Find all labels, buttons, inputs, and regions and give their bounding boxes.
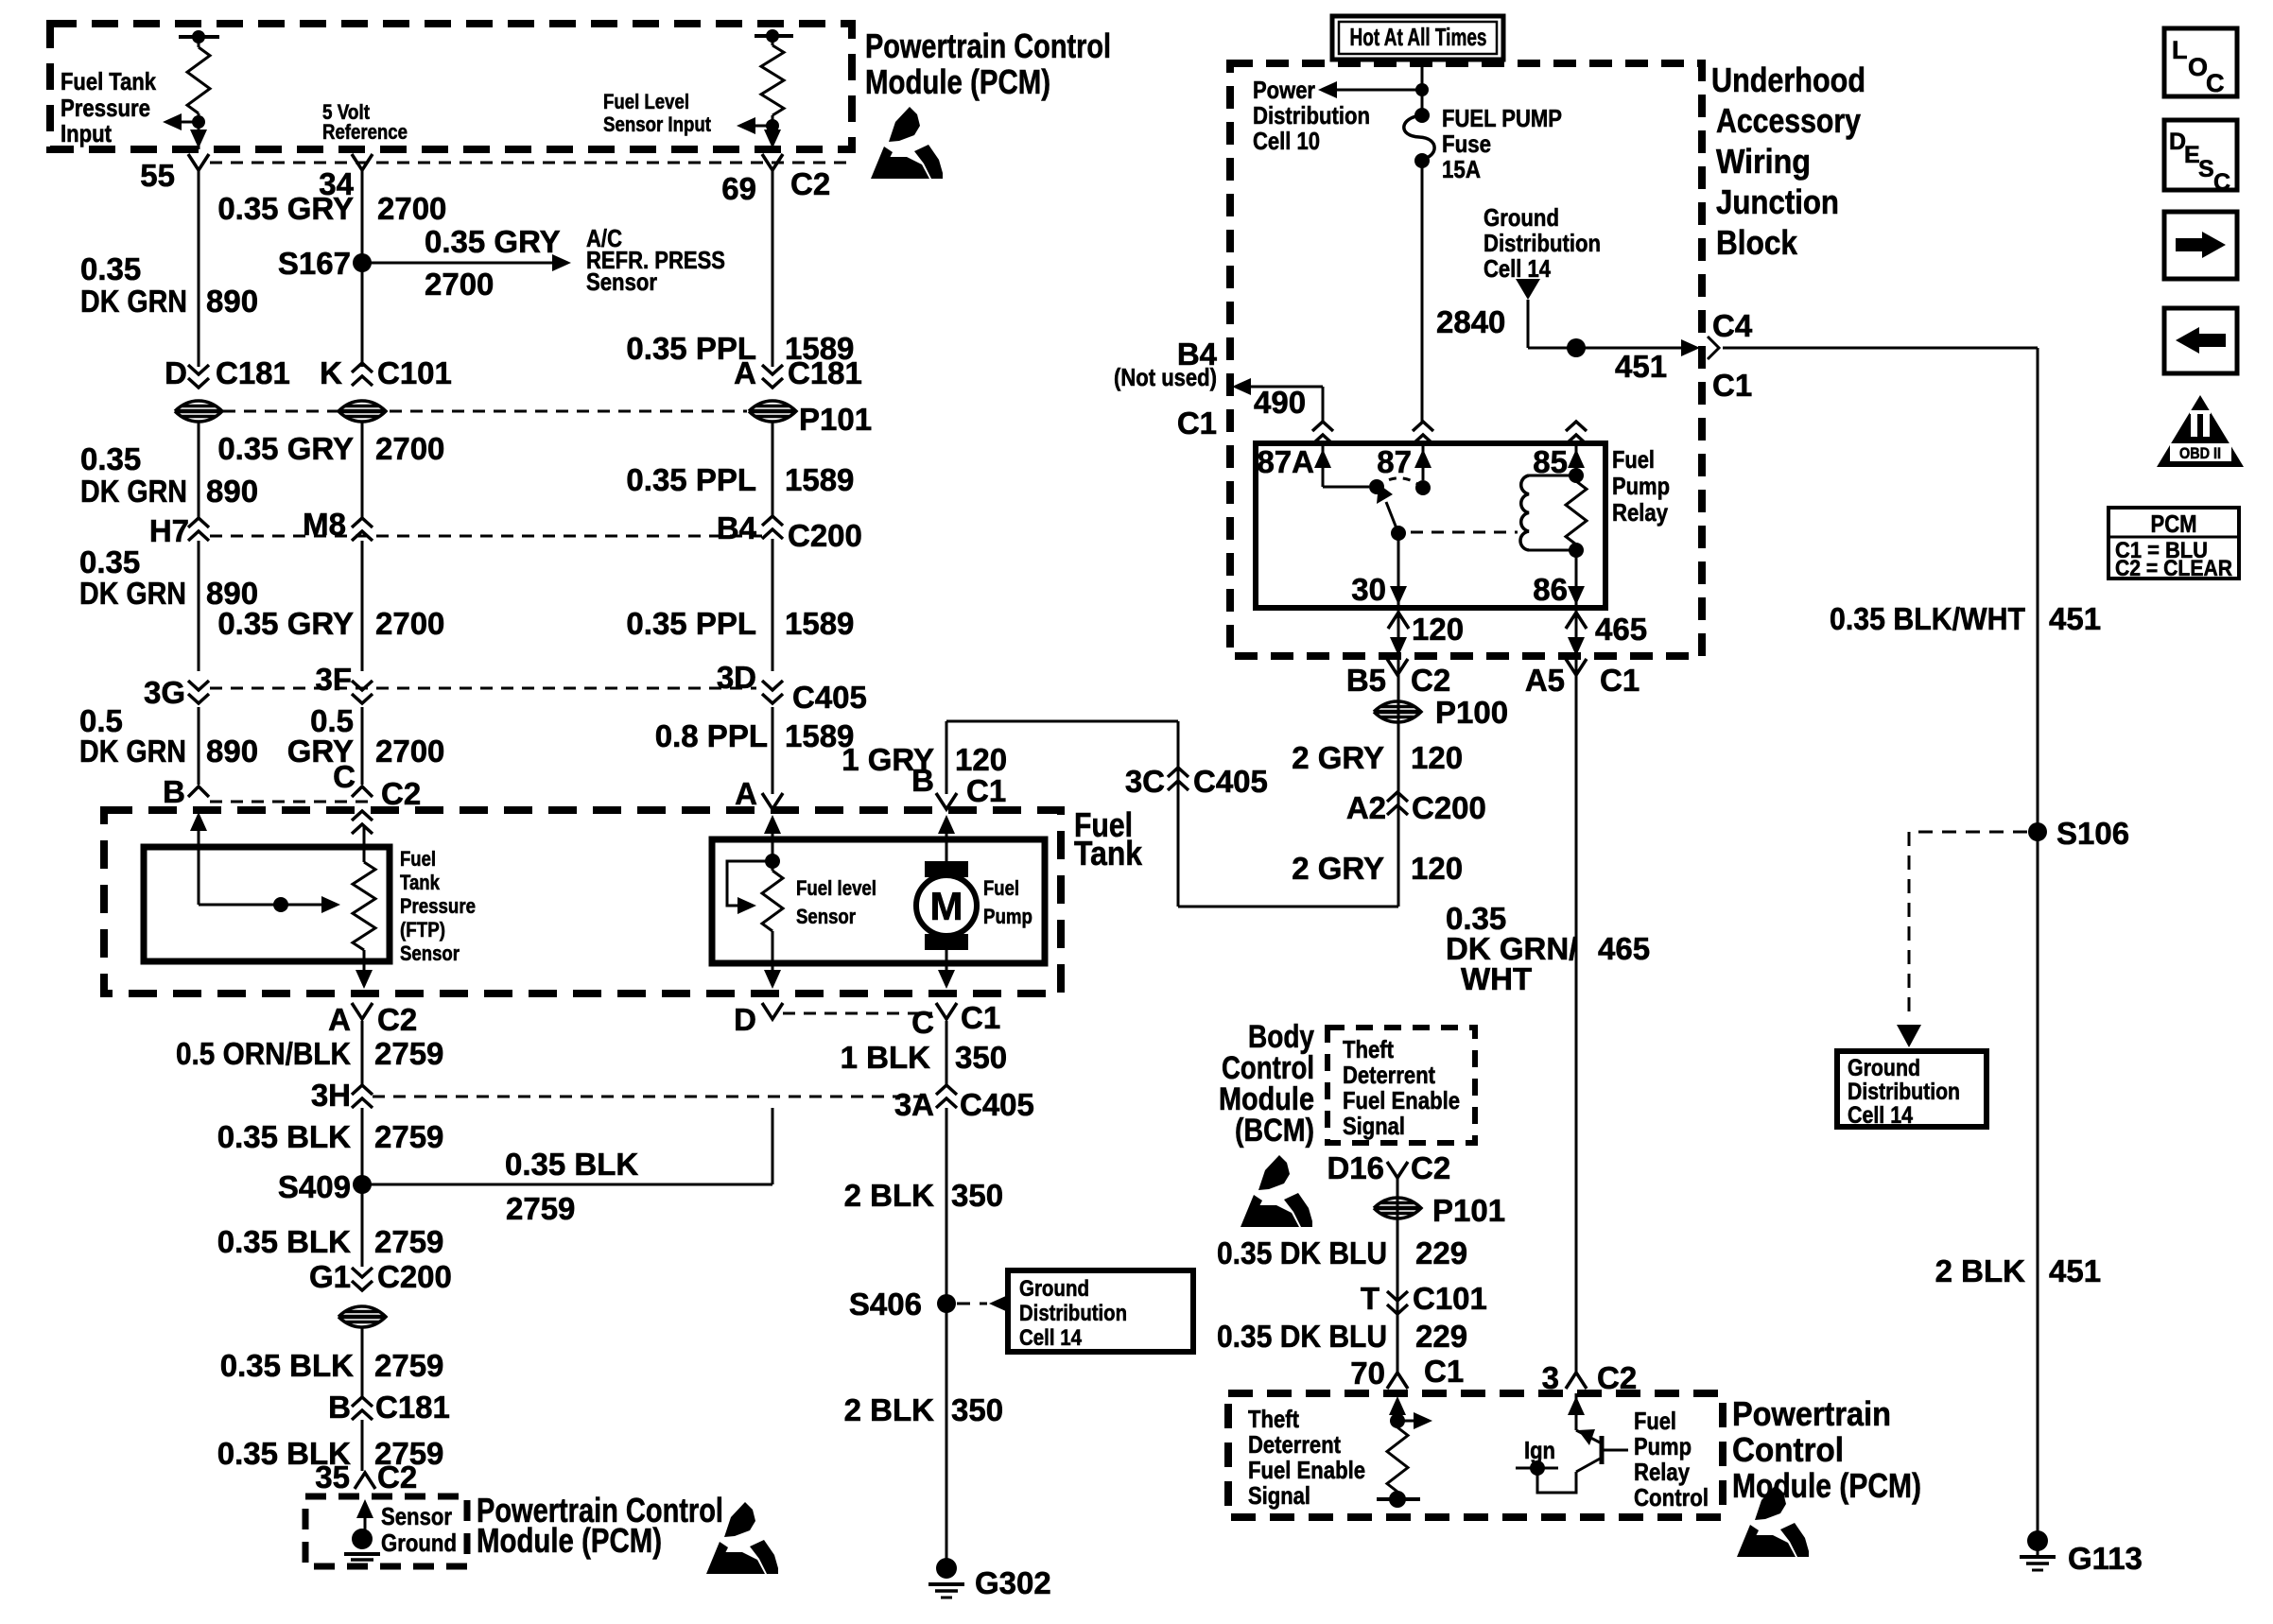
svg-text:C: C [2213, 169, 2230, 196]
svg-text:T: T [1361, 1281, 1379, 1316]
reference box: Ground Distribution Cell 14 (right) [1837, 1051, 1987, 1127]
svg-text:2 GRY: 2 GRY [1292, 851, 1384, 886]
svg-text:3H: 3H [311, 1078, 351, 1113]
svg-text:2700: 2700 [425, 267, 494, 302]
component box: Fuel Tank dashed enclosure [104, 810, 1061, 993]
pin 70 (PCM C1) [1387, 1373, 1408, 1389]
connector grommet C181/P101 row dashed line [223, 410, 747, 413]
svg-text:C: C [911, 1005, 934, 1040]
svg-text:2840: 2840 [1436, 304, 1505, 339]
component box: fuel level sensor and pump module [712, 839, 1045, 963]
wire: 0.35 BLK 2759 from C181 to pin 35 [361, 1420, 364, 1471]
FTP sensor wiper wire [199, 904, 274, 907]
svg-text:2 BLK: 2 BLK [1935, 1253, 2026, 1288]
svg-text:C1: C1 [1600, 663, 1640, 698]
svg-text:2759: 2759 [374, 1036, 443, 1071]
svg-text:C1: C1 [1712, 368, 1752, 403]
svg-text:Input: Input [61, 119, 112, 147]
svg-text:890: 890 [206, 474, 258, 509]
pin H7 (C200 pass-through) [188, 518, 209, 527]
svg-text:490: 490 [1254, 385, 1306, 420]
pin 3D (C405 pass-through) [762, 694, 783, 703]
connector C4/C1 chevron at junction block edge [1708, 337, 1719, 359]
svg-text:890: 890 [206, 734, 258, 769]
svg-text:Fuse: Fuse [1442, 130, 1491, 158]
svg-text:(FTP): (FTP) [400, 918, 445, 942]
svg-text:Sensor Input: Sensor Input [603, 112, 712, 136]
relay pin 85 internal [1575, 443, 1578, 475]
svg-text:S167: S167 [278, 246, 351, 281]
svg-text:C1: C1 [1424, 1354, 1464, 1389]
svg-text:Theft: Theft [1343, 1035, 1394, 1063]
svg-text:C2: C2 [381, 776, 421, 811]
svg-text:Pump: Pump [1634, 1432, 1692, 1460]
svg-text:Reference: Reference [322, 120, 408, 144]
wire: 0.35 BLK 2759 from 3H to S409 [361, 1108, 364, 1267]
svg-text:3C: 3C [1125, 764, 1165, 799]
theft deterrent input arrow and resistor inside PCM [1389, 1396, 1406, 1415]
svg-text:1589: 1589 [785, 462, 854, 497]
relay box: Fuel Pump Relay [1256, 443, 1605, 608]
svg-text:30: 30 [1351, 572, 1386, 607]
svg-text:Fuel Tank: Fuel Tank [61, 67, 156, 95]
svg-text:A5: A5 [1525, 663, 1565, 698]
svg-text:Distribution: Distribution [1484, 229, 1601, 257]
ESD symbol at BCM [1241, 1155, 1312, 1227]
wire: 0.35 DK GRN 890 from H7 to 3G [198, 541, 200, 671]
svg-text:G302: G302 [975, 1565, 1051, 1600]
svg-text:15A: 15A [1442, 155, 1481, 183]
svg-text:0.35 PPL: 0.35 PPL [626, 462, 756, 497]
svg-text:Fuel Enable: Fuel Enable [1343, 1086, 1460, 1114]
wire: 0.35 BLK 2759 from P101 to C181-B [361, 1326, 364, 1397]
tank exit arrows [764, 970, 781, 989]
svg-text:C405: C405 [960, 1087, 1034, 1122]
grommet P101 on BCM wire [1374, 1198, 1421, 1218]
relay pin 87A internal [1322, 443, 1325, 487]
svg-text:Powertrain: Powertrain [1732, 1394, 1891, 1433]
svg-text:OBD II: OBD II [2179, 444, 2221, 462]
svg-text:3G: 3G [144, 675, 185, 710]
svg-text:D16: D16 [1327, 1150, 1384, 1185]
relay coil suppression resistor [1569, 468, 1584, 483]
icon: OBD II triangle [2157, 395, 2244, 467]
splice S406 [937, 1294, 956, 1313]
svg-text:120: 120 [1411, 851, 1463, 886]
svg-text:2 BLK: 2 BLK [844, 1178, 935, 1213]
svg-text:Cell 14: Cell 14 [1848, 1102, 1913, 1129]
svg-text:Fuel Enable: Fuel Enable [1248, 1456, 1365, 1484]
svg-text:Relay: Relay [1634, 1458, 1690, 1486]
pin A (FTP sensor connector C2) [352, 1003, 373, 1019]
svg-text:3A: 3A [894, 1087, 934, 1122]
svg-text:DK GRN: DK GRN [80, 474, 187, 509]
svg-text:Powertrain Control: Powertrain Control [865, 26, 1111, 65]
svg-text:O: O [2188, 53, 2208, 81]
svg-text:Ground: Ground [1848, 1055, 1920, 1081]
svg-text:Fuel level: Fuel level [796, 876, 876, 900]
wire: circuit 490 to relay pin 87A [1232, 378, 1251, 395]
svg-text:C181: C181 [788, 355, 862, 390]
svg-text:2700: 2700 [375, 606, 444, 641]
svg-text:C1: C1 [961, 1000, 1000, 1035]
svg-text:350: 350 [951, 1178, 1003, 1213]
reference box: Ground Distribution Cell 14 (middle) [1008, 1270, 1193, 1352]
svg-text:1589: 1589 [785, 606, 854, 641]
svg-text:2700: 2700 [377, 191, 446, 226]
svg-text:C405: C405 [1193, 764, 1268, 799]
svg-text:Fuel: Fuel [983, 876, 1019, 900]
svg-text:85: 85 [1533, 444, 1568, 479]
svg-text:Fuel: Fuel [400, 847, 436, 871]
svg-text:Module (PCM): Module (PCM) [477, 1521, 662, 1560]
relay switch blade [1386, 502, 1398, 533]
svg-text:0.5 ORN/BLK: 0.5 ORN/BLK [176, 1036, 351, 1071]
pin T (C101 pass-through) [1387, 1304, 1408, 1314]
wire exit arrow from FTP sensor [356, 970, 373, 989]
svg-text:0.35: 0.35 [80, 251, 141, 286]
svg-text:2700: 2700 [375, 734, 444, 769]
svg-text:120: 120 [955, 742, 1007, 777]
pin D of connector C181 [188, 378, 209, 388]
svg-text:0.35 PPL: 0.35 PPL [626, 606, 756, 641]
pin M8 (C200 pass-through) [352, 518, 373, 527]
wire: 120 route to fuel pump [1178, 906, 1398, 908]
svg-text:C2: C2 [377, 1002, 417, 1037]
svg-text:0.35 DK BLU: 0.35 DK BLU [1217, 1319, 1387, 1354]
legend box: PCM connector colors [2108, 508, 2239, 579]
svg-text:2 BLK: 2 BLK [844, 1392, 935, 1427]
svg-text:Cell 14: Cell 14 [1484, 254, 1551, 283]
svg-text:Deterrent: Deterrent [1248, 1430, 1341, 1459]
svg-text:C2: C2 [790, 166, 830, 201]
svg-text:Wiring: Wiring [1716, 142, 1811, 181]
svg-text:PCM: PCM [2151, 510, 2197, 538]
svg-text:0.35: 0.35 [80, 441, 141, 476]
svg-text:P100: P100 [1435, 695, 1508, 730]
svg-text:3F: 3F [315, 662, 352, 697]
icon: back arrow box [2164, 308, 2237, 373]
svg-text:C1: C1 [1177, 406, 1217, 441]
pin 69 (PCM C2) [762, 154, 783, 170]
svg-text:2 GRY: 2 GRY [1292, 740, 1384, 775]
dashed connector line at 3H/3B/3A row [373, 1096, 934, 1098]
wire: 2840 fuse output to relay pin 87 [1421, 161, 1424, 423]
transistor: fuel pump relay control driver [1575, 1393, 1578, 1430]
component box: Fuel Tank Pressure (FTP) Sensor [144, 847, 390, 961]
wire: 2 BLK 350 from 3A to S406 [946, 1108, 948, 1296]
resistor: fuel level sensor input pull-up (inside PCM) [755, 34, 793, 38]
svg-text:Sensor: Sensor [796, 905, 856, 928]
svg-text:Fuel: Fuel [1634, 1407, 1676, 1435]
svg-text:Distribution: Distribution [1019, 1301, 1127, 1326]
svg-text:0.35 BLK: 0.35 BLK [217, 1224, 351, 1259]
svg-text:C101: C101 [377, 355, 452, 390]
wire: 0.5 GRY 2700 from 3F to pin C [361, 707, 364, 785]
svg-text:465: 465 [1595, 612, 1647, 647]
ground G113 [2027, 1530, 2048, 1551]
svg-text:Power: Power [1253, 76, 1315, 104]
svg-text:Signal: Signal [1343, 1112, 1405, 1140]
svg-text:B: B [163, 774, 185, 809]
svg-text:Distribution: Distribution [1253, 101, 1370, 130]
svg-text:C200: C200 [788, 518, 862, 553]
svg-text:Ign: Ign [1524, 1436, 1555, 1464]
connector C2 dashed line at PCM pins [210, 162, 846, 164]
svg-text:C1: C1 [966, 773, 1006, 808]
splice S409 [353, 1175, 372, 1194]
svg-text:A: A [735, 776, 757, 811]
svg-text:C2: C2 [377, 1460, 417, 1494]
pin 3H (C405 pass-through) [352, 1085, 373, 1095]
svg-text:DK GRN: DK GRN [80, 284, 187, 319]
svg-text:K: K [320, 355, 342, 390]
wire: S409 branch 0.35 BLK 2759 to 3B column [362, 1183, 772, 1186]
svg-text:A2: A2 [1346, 790, 1386, 825]
svg-text:Sensor: Sensor [586, 268, 657, 296]
wire entry arrows into FTP sensor [190, 812, 207, 831]
svg-text:C2: C2 [1411, 1150, 1450, 1185]
svg-text:Ground: Ground [1019, 1276, 1089, 1302]
svg-text:Block: Block [1716, 223, 1798, 262]
relay pin 86 internal [1575, 550, 1578, 608]
svg-text:86: 86 [1533, 572, 1568, 607]
motor: fuel pump M [925, 861, 968, 877]
svg-text:S106: S106 [2056, 816, 2129, 851]
svg-text:0.35: 0.35 [79, 544, 140, 579]
resistor: fuel tank pressure input pull-up (inside PCM) [179, 35, 219, 39]
wire: battery feed from Hot At All Times [1421, 60, 1424, 110]
svg-text:Cell 14: Cell 14 [1019, 1325, 1083, 1351]
svg-text:451: 451 [1615, 349, 1667, 384]
icon: DESC box [2164, 120, 2237, 190]
svg-text:A: A [734, 355, 756, 390]
svg-text:Fuel Level: Fuel Level [603, 90, 689, 113]
grommet P101 on wire 1 [175, 401, 222, 422]
icon: forward arrow box [2164, 212, 2237, 279]
svg-text:Cell 10: Cell 10 [1253, 127, 1320, 155]
svg-text:S406: S406 [849, 1287, 922, 1322]
pin 3C (C405 pass-through) [1168, 768, 1189, 777]
wire: fuel pump feed inside tank [938, 815, 955, 834]
svg-text:0.35 GRY: 0.35 GRY [425, 224, 561, 259]
svg-text:C2 = CLEAR: C2 = CLEAR [2115, 556, 2232, 581]
pin A2 (C200 pass-through) [1387, 792, 1408, 802]
svg-text:G1: G1 [309, 1259, 351, 1294]
svg-text:465: 465 [1598, 931, 1650, 966]
transistor ignition feed [1516, 1467, 1558, 1470]
svg-text:229: 229 [1415, 1235, 1467, 1270]
wire: 2 BLK 350 from S406 to G302 [946, 1304, 948, 1560]
tank entry chevron for wire 2 [352, 811, 373, 821]
svg-text:B: B [328, 1390, 351, 1425]
svg-text:P101: P101 [799, 402, 872, 437]
pin B (FTP sensor connector C2) [188, 786, 209, 797]
module box: Underhood Accessory Wiring Junction Block (dashed) [1230, 63, 1702, 656]
pin 3G (C405 pass-through) [188, 694, 209, 703]
relay pin 30 internal [1397, 533, 1400, 608]
grommet P100 [1374, 701, 1421, 722]
splice S106 [2028, 822, 2047, 841]
svg-text:C181: C181 [216, 355, 290, 390]
svg-text:C200: C200 [1412, 790, 1486, 825]
svg-text:DK GRN: DK GRN [79, 734, 186, 769]
svg-text:451: 451 [2049, 601, 2101, 636]
module box: BCM Theft Deterrent Fuel Enable Signal (dashed) [1327, 1028, 1475, 1143]
svg-text:Signal: Signal [1248, 1481, 1310, 1510]
svg-text:69: 69 [721, 171, 756, 206]
svg-text:2759: 2759 [374, 1348, 443, 1383]
svg-text:0.35 BLK: 0.35 BLK [505, 1147, 638, 1182]
svg-text:Deterrent: Deterrent [1343, 1061, 1435, 1089]
grommet P101 below G1 [338, 1306, 386, 1327]
relay pin 87 internal [1422, 443, 1425, 480]
wire: 0.35 GRY 2700 from M8 to 3F [361, 541, 364, 671]
svg-text:C181: C181 [375, 1390, 450, 1425]
svg-text:L: L [2172, 36, 2188, 64]
svg-text:87: 87 [1377, 444, 1412, 479]
ground G302 [936, 1558, 957, 1579]
svg-text:C200: C200 [377, 1259, 452, 1294]
svg-text:Control: Control [1634, 1483, 1709, 1512]
svg-text:120: 120 [1412, 612, 1464, 647]
wire: 0.35 DK GRN 890 from C181 to H7 [198, 421, 200, 518]
svg-text:0.35 BLK: 0.35 BLK [217, 1119, 351, 1154]
pin A of connector C181 [762, 378, 783, 388]
pin B (fuel pump connector C1) [936, 793, 957, 809]
svg-text:120: 120 [1411, 740, 1463, 775]
svg-text:350: 350 [951, 1392, 1003, 1427]
svg-text:3D: 3D [717, 660, 756, 695]
ESD symbol at bottom-left PCM [706, 1502, 778, 1574]
resistor: fuel level sensor element [772, 861, 774, 871]
pin C (pump ground, connector C1) [936, 1003, 957, 1019]
svg-text:2759: 2759 [374, 1224, 443, 1259]
wire: FTP input arrow to PCM internal [170, 121, 199, 124]
svg-text:451: 451 [2049, 1253, 2101, 1288]
svg-text:Tank: Tank [400, 871, 441, 894]
svg-text:2759: 2759 [506, 1191, 575, 1226]
pin C (FTP sensor connector C2) [352, 786, 373, 797]
svg-text:2700: 2700 [375, 431, 444, 466]
svg-text:(BCM): (BCM) [1235, 1113, 1314, 1149]
svg-text:0.35 GRY: 0.35 GRY [217, 431, 354, 466]
svg-text:D: D [734, 1002, 756, 1037]
svg-text:S: S [2198, 156, 2214, 182]
power box: Hot At All Times [1332, 16, 1503, 60]
svg-text:Hot At All Times: Hot At All Times [1350, 23, 1487, 51]
svg-text:Pressure: Pressure [61, 94, 150, 122]
wire: 0.35 DK GRN 890 from pin 55 to C181-D [198, 170, 200, 367]
svg-text:70: 70 [1350, 1356, 1385, 1391]
grommet P101 on wire 3 [749, 401, 796, 422]
pin A (fuel sender connector C1) [762, 793, 783, 809]
pin K of connector C101 [352, 363, 373, 372]
svg-text:G113: G113 [2068, 1541, 2143, 1576]
svg-text:Module (PCM): Module (PCM) [1732, 1466, 1921, 1505]
wire: fuel level input arrow to PCM internal [745, 125, 772, 128]
pin A5 (junction block C1) [1566, 659, 1587, 675]
wire: 0.8 PPL 1589 from 3D to pin A of fuel tank [772, 707, 774, 794]
pin 35 (PCM C2) [355, 1473, 375, 1489]
svg-text:Module (PCM): Module (PCM) [865, 62, 1050, 101]
resistor: FTP sensor element [363, 825, 366, 862]
wire: 0.5 DK GRN 890 from 3G to pin B [198, 707, 200, 785]
svg-text:Ground: Ground [1484, 203, 1559, 232]
svg-text:Tank: Tank [1074, 834, 1143, 872]
module box: Powertrain Control Module (PCM) bottom-right (dashed) [1228, 1393, 1723, 1517]
icon: LOC box [2164, 28, 2237, 96]
wire: circuit 451 / 2 BLK down right side [2037, 348, 2039, 1558]
svg-text:Theft: Theft [1248, 1405, 1299, 1433]
grommet P101 on wire 2 [338, 401, 386, 422]
svg-text:0.8 PPL: 0.8 PPL [655, 718, 768, 753]
svg-text:M8: M8 [303, 507, 346, 542]
svg-text:M: M [930, 884, 963, 928]
svg-text:Pump: Pump [1612, 472, 1670, 500]
svg-text:890: 890 [206, 284, 258, 319]
pin 34 (PCM C2) [352, 154, 373, 170]
svg-text:87A: 87A [1257, 444, 1314, 479]
pin B4 (C200 pass-through) [762, 516, 783, 526]
ground distribution feed triangle [1516, 279, 1540, 300]
svg-text:C4: C4 [1712, 308, 1753, 343]
wire: 0.35 GRY 2700 from pin 34 through S167 to C101-K [361, 170, 364, 367]
wire: S167 branch to A/C refrigerant pressure sensor [362, 262, 562, 265]
dashed connector line at D/C row [783, 1012, 932, 1015]
relay pin chevrons above box [1312, 422, 1333, 431]
wire: fuel pump ground inside tank [946, 950, 948, 986]
module box: PCM sensor ground (dashed) [305, 1496, 467, 1566]
dashed reference link from S406 to Ground Distribution Cell 14 [957, 1303, 987, 1305]
wire: 0.35 GRY 2700 from C101 to M8 [361, 421, 364, 518]
sensor ground arrow and ground symbol inside PCM [356, 1499, 373, 1518]
svg-text:FUEL PUMP: FUEL PUMP [1442, 104, 1562, 132]
svg-text:B5: B5 [1346, 663, 1386, 698]
relay coil [1529, 475, 1576, 477]
pin 3 (PCM C2) [1566, 1373, 1587, 1389]
svg-text:2759: 2759 [374, 1119, 443, 1154]
svg-text:(Not used): (Not used) [1114, 363, 1217, 391]
svg-text:C405: C405 [792, 680, 867, 715]
wire: 0.35 PPL 1589 from B4 to 3D [772, 539, 774, 671]
svg-text:C101: C101 [1413, 1281, 1487, 1316]
svg-text:1 BLK: 1 BLK [841, 1040, 931, 1075]
wire: 0.35 PPL 1589 from pin 69 to C181-A [772, 170, 774, 367]
svg-text:350: 350 [955, 1040, 1007, 1075]
wire: theft deterrent signal from BCM [1397, 1178, 1399, 1373]
pin G1 (C200 pass-through) [352, 1281, 373, 1290]
wire: 0.35 PPL 1589 from C181 to B4 [772, 421, 774, 516]
fuel level sender entry arrow [764, 815, 781, 834]
svg-text:Sensor: Sensor [400, 942, 460, 965]
ESD symbol at bottom-right PCM [1737, 1485, 1809, 1557]
svg-text:Pump: Pump [983, 905, 1032, 928]
pin D16 (BCM C2) [1387, 1162, 1408, 1178]
svg-text:D: D [165, 355, 187, 390]
dashed connector line at 3G/3F/3D row [210, 687, 756, 690]
svg-text:35: 35 [315, 1460, 350, 1494]
wire: 0.5 ORN/BLK 2759 from pin A to 3H [361, 1021, 364, 1085]
pin 3A (C405 pass-through) [936, 1085, 957, 1095]
svg-text:Distribution: Distribution [1848, 1079, 1960, 1105]
pin D (sender ground, connector C1) [762, 1003, 783, 1019]
svg-text:Control: Control [1732, 1430, 1844, 1469]
module box: Powertrain Control Module (PCM) top-left (dashed) [50, 24, 852, 149]
svg-text:0.35 DK BLU: 0.35 DK BLU [1217, 1235, 1387, 1270]
svg-text:Ground: Ground [381, 1529, 457, 1557]
ESD symbol at top PCM [871, 107, 943, 179]
